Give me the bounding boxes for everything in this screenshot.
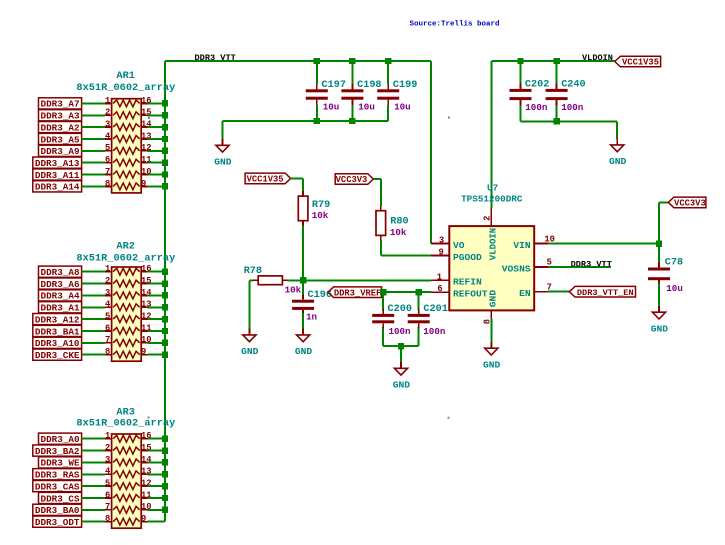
pin 8 stub (AR1) bbox=[105, 185, 112, 187]
pin 10 stub (VIN) bbox=[534, 243, 548, 245]
svg-text:AR2: AR2 bbox=[116, 240, 135, 252]
junction bus-AR2-13 bbox=[162, 304, 168, 310]
wire C201 top connection bbox=[418, 292, 420, 310]
svg-text:DDR3_A14: DDR3_A14 bbox=[35, 182, 80, 193]
resistor element AR2.4 bbox=[113, 304, 140, 311]
svg-text:DDR3_WE: DDR3_WE bbox=[41, 458, 80, 469]
pin stub 15 (AR1) bbox=[141, 114, 148, 116]
pin 2 stub (AR2) bbox=[105, 283, 112, 285]
svg-text:AR1: AR1 bbox=[116, 70, 135, 82]
wire AR3 pin 11 to bus bbox=[148, 497, 165, 499]
resistor element AR3.2 bbox=[113, 447, 140, 454]
wire C198 bottom connection bbox=[351, 105, 353, 121]
svg-text:9: 9 bbox=[141, 347, 146, 357]
resistor element AR1.7 bbox=[113, 171, 140, 178]
pin stub bottom C201 bbox=[418, 323, 420, 327]
pin 1 stub (AR2) bbox=[105, 271, 112, 273]
pin stub 11 (AR3) bbox=[141, 497, 148, 499]
junction bus-AR2-12 bbox=[162, 316, 168, 322]
pin stub 11 (AR2) bbox=[141, 330, 148, 332]
svg-text:VOSNS: VOSNS bbox=[502, 263, 531, 274]
ground for C197-C199 bbox=[214, 121, 232, 168]
wire R80 bottom connection bbox=[380, 240, 382, 255]
wire VIN to C78 node bbox=[548, 243, 659, 245]
wire DDR3_VTT drop to U7 pin 3 bbox=[430, 61, 432, 244]
ground for C78 bbox=[651, 284, 669, 335]
junction C240 bottom bbox=[553, 118, 559, 124]
wire AR1 pin 12 to bus bbox=[148, 150, 165, 152]
svg-text:10u: 10u bbox=[394, 102, 411, 113]
svg-text:C201: C201 bbox=[423, 304, 447, 315]
pin stub 12 (AR1) bbox=[141, 150, 148, 152]
label DDR3_A9 bbox=[39, 145, 82, 157]
wire DDR3_BA0 to AR3 pin 7 bbox=[82, 509, 106, 511]
wire DDR3_VTT horizontal (top) bbox=[165, 60, 431, 62]
resistor element AR1.8 bbox=[113, 183, 140, 190]
svg-text:C202: C202 bbox=[525, 80, 549, 91]
wire DDR3_CAS to AR3 pin 5 bbox=[82, 485, 106, 487]
label DDR3_CKE bbox=[33, 349, 82, 361]
svg-text:10u: 10u bbox=[323, 102, 340, 113]
pin 4 stub (AR3) bbox=[105, 473, 112, 475]
junction bus-AR1-11 bbox=[162, 159, 168, 165]
wire AR3 pin 14 to bus bbox=[148, 461, 165, 463]
svg-text:DDR3_A5: DDR3_A5 bbox=[41, 134, 80, 145]
label DDR3_A1 bbox=[39, 302, 82, 314]
junction bus-AR2-9 bbox=[162, 351, 168, 357]
ground for U7 bbox=[483, 319, 501, 371]
wire C196 top connection bbox=[302, 280, 304, 297]
wire DDR3_BA2 to AR3 pin 2 bbox=[82, 450, 106, 452]
junction bus-AR3-14 bbox=[162, 459, 168, 465]
wire DDR3_ODT to AR3 pin 8 bbox=[82, 521, 106, 523]
resistor array AR2 body bbox=[112, 267, 142, 361]
ground for C200/C201 bbox=[393, 346, 411, 390]
label DDR3_A13 bbox=[33, 157, 82, 169]
wire DDR3_A4 to AR2 pin 3 bbox=[82, 294, 106, 296]
svg-text:4: 4 bbox=[105, 300, 111, 310]
svg-text:100n: 100n bbox=[561, 102, 583, 113]
resistor R80 bbox=[376, 211, 386, 236]
resistor element AR2.5 bbox=[113, 316, 140, 323]
pin 6 stub (AR2) bbox=[105, 330, 112, 332]
wire C202 bottom connection bbox=[520, 105, 522, 121]
svg-text:DDR3_A1: DDR3_A1 bbox=[41, 303, 80, 314]
label DDR3_WE bbox=[39, 457, 82, 469]
pin stub 16 (AR2) bbox=[141, 271, 148, 273]
wire C78 top connection bbox=[658, 244, 660, 264]
label DDR3_A3 bbox=[39, 110, 82, 122]
svg-text:DDR3_CAS: DDR3_CAS bbox=[35, 481, 80, 492]
svg-text:10u: 10u bbox=[358, 102, 375, 113]
pin 4 stub (AR2) bbox=[105, 306, 112, 308]
svg-text:DDR3_A12: DDR3_A12 bbox=[35, 314, 80, 325]
pin stub bottom C202 bbox=[520, 100, 522, 105]
resistor R79 bbox=[298, 196, 308, 221]
junction C198 top bbox=[349, 58, 355, 64]
pin 1 stub (AR3) bbox=[105, 438, 112, 440]
label DDR3_A10 bbox=[33, 337, 82, 349]
pin stub 12 (AR3) bbox=[141, 485, 148, 487]
wire C197 top connection bbox=[316, 61, 318, 84]
pin stub 12 (AR2) bbox=[141, 318, 148, 320]
svg-text:8: 8 bbox=[105, 179, 110, 189]
pin 2 stub (AR1) bbox=[105, 114, 112, 116]
wire R79 top connection bbox=[302, 178, 304, 191]
artifact dot 2 bbox=[148, 117, 150, 119]
svg-text:REFIN: REFIN bbox=[453, 277, 482, 288]
svg-text:GND: GND bbox=[214, 157, 232, 168]
global label DDR3_VREF bbox=[328, 287, 382, 299]
svg-text:DDR3_RAS: DDR3_RAS bbox=[35, 470, 80, 481]
svg-text:1: 1 bbox=[105, 264, 110, 274]
resistor element AR2.7 bbox=[113, 339, 140, 346]
pin stub bottom C240 bbox=[556, 100, 558, 105]
svg-text:VCC1V35: VCC1V35 bbox=[622, 58, 659, 68]
pin stubs R78 bbox=[253, 279, 287, 281]
wire AR3 pin 10 to bus bbox=[148, 509, 165, 511]
pin 3 stub (AR2) bbox=[105, 294, 112, 296]
wire AR1 pin 15 to bus bbox=[148, 114, 165, 116]
wire U7 pin7 to DDR3_VTT_EN bbox=[548, 291, 569, 293]
svg-text:3: 3 bbox=[105, 120, 110, 130]
capacitor C202 bbox=[510, 84, 532, 106]
svg-text:100n: 100n bbox=[423, 326, 445, 337]
ic U7 TPS51200DRC body bbox=[449, 226, 534, 310]
svg-text:100n: 100n bbox=[525, 102, 547, 113]
pin 3 stub (VO) bbox=[431, 243, 449, 245]
svg-text:DDR3_A0: DDR3_A0 bbox=[41, 434, 80, 445]
pin 2 stub (AR3) bbox=[105, 450, 112, 452]
junction bus-AR1-12 bbox=[162, 148, 168, 154]
svg-text:GND: GND bbox=[393, 380, 411, 391]
wire R78 left down to GND bbox=[248, 280, 250, 335]
resistor element AR2.8 bbox=[113, 351, 140, 358]
pin stub bottom C196 bbox=[302, 310, 304, 313]
svg-text:1n: 1n bbox=[306, 312, 317, 323]
svg-text:VCC1V35: VCC1V35 bbox=[247, 175, 284, 185]
svg-text:GND: GND bbox=[295, 346, 313, 357]
junction C201 tap bbox=[416, 289, 422, 295]
wire DDR3_A5 to AR1 pin 4 bbox=[82, 138, 106, 140]
artifact dot 3 bbox=[148, 417, 150, 419]
svg-text:100n: 100n bbox=[389, 326, 411, 337]
svg-text:DDR3_BA1: DDR3_BA1 bbox=[35, 326, 80, 337]
svg-text:10k: 10k bbox=[285, 285, 302, 296]
wire C200 bottom connection bbox=[382, 327, 384, 346]
svg-text:8x51R_0602_array: 8x51R_0602_array bbox=[76, 82, 175, 94]
pin 1 stub (AR1) bbox=[105, 102, 112, 104]
pin stub 9 (AR1) bbox=[141, 185, 148, 187]
label DDR3_A2 bbox=[39, 122, 82, 134]
pin stub bottom C197 bbox=[316, 100, 318, 105]
wire DDR3_A13 to AR1 pin 6 bbox=[82, 162, 106, 164]
junction bus-AR1-13 bbox=[162, 136, 168, 142]
wire DDR3_A2 to AR1 pin 3 bbox=[82, 126, 106, 128]
wire AR2 pin 13 to bus bbox=[148, 306, 165, 308]
svg-text:DDR3_A11: DDR3_A11 bbox=[35, 170, 80, 181]
svg-text:DDR3_A4: DDR3_A4 bbox=[41, 291, 80, 302]
junction bus-AR2-10 bbox=[162, 340, 168, 346]
wire R79 bottom to REFIN node bbox=[302, 226, 304, 281]
junction bus-AR3-11 bbox=[162, 495, 168, 501]
svg-text:5: 5 bbox=[105, 479, 110, 489]
wire REFOUT row wire bbox=[382, 291, 432, 293]
pin stub top C197 bbox=[316, 84, 318, 89]
pin stub top C201 bbox=[418, 310, 420, 314]
resistor element AR3.1 bbox=[113, 435, 140, 442]
wire C197 bottom connection bbox=[316, 105, 318, 121]
ground for C202/C240 bbox=[609, 121, 627, 167]
wire corner to VCC3V3 bbox=[659, 201, 668, 203]
svg-text:4: 4 bbox=[105, 131, 111, 141]
resistor element AR1.6 bbox=[113, 159, 140, 166]
pin stub 10 (AR1) bbox=[141, 174, 148, 176]
pin stub 9 (AR3) bbox=[141, 521, 148, 523]
svg-text:3: 3 bbox=[105, 288, 110, 298]
global label VCC3V3 (right) bbox=[668, 197, 706, 209]
svg-text:9: 9 bbox=[141, 514, 146, 524]
global label VCC1V35 (mid) bbox=[245, 173, 291, 185]
wire VCC3V3 to R80 corner bbox=[373, 178, 380, 180]
junction bus-AR2-14 bbox=[162, 292, 168, 298]
pin stub 10 (AR3) bbox=[141, 509, 148, 511]
wire AR3 pin 13 to bus bbox=[148, 473, 165, 475]
svg-text:DDR3_A9: DDR3_A9 bbox=[41, 146, 80, 157]
pin 5 stub (AR2) bbox=[105, 318, 112, 320]
junction C200/C201 gnd node bbox=[398, 343, 404, 349]
svg-text:DDR3_A13: DDR3_A13 bbox=[35, 158, 80, 169]
resistor element AR3.8 bbox=[113, 518, 140, 525]
pin stub top C198 bbox=[351, 84, 353, 89]
junction C197 bottom bbox=[314, 118, 320, 124]
pin stub 15 (AR3) bbox=[141, 450, 148, 452]
wire AR2 pin 9 to bus bbox=[148, 354, 165, 356]
label DDR3_BA1 bbox=[33, 325, 82, 337]
junction bus-AR1-16 bbox=[162, 100, 168, 106]
pin stubs R80 bbox=[380, 206, 382, 241]
wire U7 pin5 to DDR3_VTT label bbox=[548, 266, 611, 268]
global label DDR3_VTT_EN bbox=[569, 286, 635, 298]
wire C240 bottom connection bbox=[556, 105, 558, 121]
pin 7 stub (AR2) bbox=[105, 342, 112, 344]
wire AR2 pin 10 to bus bbox=[148, 342, 165, 344]
wire AR3 pin 9 to bus bbox=[148, 521, 165, 523]
svg-text:VLDOIN: VLDOIN bbox=[489, 228, 499, 260]
wire DDR3_CKE to AR2 pin 8 bbox=[82, 354, 106, 356]
label DDR3_A0 bbox=[39, 433, 82, 445]
wire C198 top connection bbox=[351, 61, 353, 84]
wire DDR3_A14 to AR1 pin 8 bbox=[82, 185, 106, 187]
svg-text:C240: C240 bbox=[561, 80, 585, 91]
junction bus-AR2-16 bbox=[162, 269, 168, 275]
capacitor C200 bbox=[372, 309, 394, 329]
pin 8 stub (GND) bbox=[490, 310, 492, 318]
svg-text:DDR3_A7: DDR3_A7 bbox=[41, 99, 80, 110]
svg-text:DDR3_A2: DDR3_A2 bbox=[41, 122, 80, 133]
svg-text:Source:Trellis board: Source:Trellis board bbox=[410, 21, 500, 29]
wire AR2 pin 15 to bus bbox=[148, 283, 165, 285]
wire AR1 pin 14 to bus bbox=[148, 126, 165, 128]
ground for R78 bbox=[241, 280, 259, 357]
artifact dot 1 bbox=[448, 117, 450, 119]
junction bus-AR3-10 bbox=[162, 507, 168, 513]
resistor element AR2.1 bbox=[113, 268, 140, 275]
svg-text:5: 5 bbox=[105, 312, 110, 322]
junction bus-AR3-15 bbox=[162, 447, 168, 453]
svg-text:9: 9 bbox=[439, 248, 444, 258]
svg-text:7: 7 bbox=[105, 502, 110, 512]
svg-text:8: 8 bbox=[105, 347, 110, 357]
label DDR3_CAS bbox=[33, 481, 82, 493]
pin stub 14 (AR1) bbox=[141, 126, 148, 128]
pin stub top C78 bbox=[658, 263, 660, 267]
wire DDR3_CS to AR3 pin 6 bbox=[82, 497, 106, 499]
svg-text:6: 6 bbox=[437, 284, 442, 294]
pin 7 stub (AR1) bbox=[105, 174, 112, 176]
label DDR3_CS bbox=[39, 492, 82, 504]
wire C78 bottom to GND bbox=[658, 284, 660, 312]
pin 6 stub (AR3) bbox=[105, 497, 112, 499]
svg-text:DDR3_VREF: DDR3_VREF bbox=[334, 288, 382, 298]
svg-text:R78: R78 bbox=[244, 266, 262, 277]
junction bus-AR3-13 bbox=[162, 471, 168, 477]
wire R78 right to REFIN node bbox=[287, 279, 303, 281]
label DDR3_A11 bbox=[33, 169, 82, 181]
wire R80 to U7 pin 9 bbox=[381, 255, 431, 257]
wire C240 top connection bbox=[556, 61, 558, 84]
label DDR3_A4 bbox=[39, 290, 82, 302]
junction C199 top bbox=[385, 58, 391, 64]
global label VCC3V3 (mid) bbox=[335, 174, 373, 186]
junction C202 top bbox=[517, 58, 523, 64]
pin stub 15 (AR2) bbox=[141, 283, 148, 285]
junction C240 top bbox=[553, 58, 559, 64]
wire AR1 pin 13 to bus bbox=[148, 138, 165, 140]
svg-text:DDR3_A8: DDR3_A8 bbox=[41, 267, 80, 278]
svg-text:VCC3V3: VCC3V3 bbox=[674, 199, 706, 209]
pin 5 stub (VOSNS) bbox=[534, 266, 548, 268]
pin 6 stub (REFOUT) bbox=[431, 291, 449, 293]
wire C200 top connection bbox=[382, 292, 384, 310]
pin 8 stub (AR2) bbox=[105, 354, 112, 356]
svg-text:DDR3_A3: DDR3_A3 bbox=[41, 111, 80, 122]
resistor element AR3.4 bbox=[113, 471, 140, 478]
pin stub 14 (AR2) bbox=[141, 294, 148, 296]
label DDR3_A6 bbox=[39, 278, 82, 290]
capacitor C78 bbox=[648, 262, 670, 285]
wire C202 top connection bbox=[520, 61, 522, 84]
wire C201 bottom connection bbox=[418, 327, 420, 346]
wire C196 bottom to GND bbox=[302, 313, 304, 335]
pin 7 stub (AR3) bbox=[105, 509, 112, 511]
svg-text:9: 9 bbox=[141, 179, 146, 189]
wire AR1 pin 10 to bus bbox=[148, 174, 165, 176]
svg-text:VCC3V3: VCC3V3 bbox=[336, 175, 368, 185]
junction C200 tap bbox=[380, 289, 386, 295]
svg-text:VIN: VIN bbox=[513, 240, 531, 251]
svg-text:DDR3_BA2: DDR3_BA2 bbox=[35, 446, 80, 457]
label DDR3_A8 bbox=[39, 266, 82, 278]
svg-text:6: 6 bbox=[105, 490, 110, 500]
svg-text:DDR3_CS: DDR3_CS bbox=[41, 493, 80, 504]
junction bus-AR3-16 bbox=[162, 436, 168, 442]
wire AR2 pin 14 to bus bbox=[148, 294, 165, 296]
svg-text:3: 3 bbox=[105, 455, 110, 465]
wire DDR3_RAS to AR3 pin 4 bbox=[82, 473, 106, 475]
wire AR1 pin 9 to bus bbox=[148, 185, 165, 187]
pin stub 13 (AR3) bbox=[141, 473, 148, 475]
resistor element AR1.3 bbox=[113, 124, 140, 131]
wire VCC1V35 to R79 corner bbox=[291, 177, 303, 179]
pin stub 9 (AR2) bbox=[141, 354, 148, 356]
svg-text:VO: VO bbox=[453, 240, 465, 251]
resistor array AR3 body bbox=[112, 434, 142, 528]
svg-text:VLDOIN: VLDOIN bbox=[582, 53, 613, 63]
junction VIN/C78 node bbox=[656, 240, 662, 246]
wire DDR3_A3 to AR1 pin 2 bbox=[82, 114, 106, 116]
svg-text:GND: GND bbox=[483, 360, 501, 371]
pin 3 stub (AR3) bbox=[105, 461, 112, 463]
svg-text:DDR3_BA0: DDR3_BA0 bbox=[35, 505, 80, 516]
pin 5 stub (AR1) bbox=[105, 150, 112, 152]
wire DDR3_A11 to AR1 pin 7 bbox=[82, 174, 106, 176]
pin 9 stub (PGOOD) bbox=[431, 255, 449, 257]
junction bus-AR2-15 bbox=[162, 280, 168, 286]
capacitor C201 bbox=[408, 309, 430, 329]
pin stub 11 (AR1) bbox=[141, 162, 148, 164]
wire AR2 pin 12 to bus bbox=[148, 318, 165, 320]
resistor element AR1.1 bbox=[113, 100, 140, 107]
junction bus-AR2-11 bbox=[162, 328, 168, 334]
wire AR1 pin 11 to bus bbox=[148, 162, 165, 164]
svg-text:7: 7 bbox=[105, 167, 110, 177]
wire AR3 pin 15 to bus bbox=[148, 450, 165, 452]
junction bus-AR1-9 bbox=[162, 183, 168, 189]
resistor element AR3.5 bbox=[113, 483, 140, 490]
pin stub bottom C78 bbox=[658, 280, 660, 284]
svg-text:DDR3_CKE: DDR3_CKE bbox=[35, 350, 80, 361]
artifact dot 4 bbox=[448, 417, 450, 419]
svg-text:REFOUT: REFOUT bbox=[453, 289, 488, 300]
wire AR3 pin 12 to bus bbox=[148, 485, 165, 487]
wire DDR3_WE to AR3 pin 3 bbox=[82, 461, 106, 463]
pin stub top C202 bbox=[520, 84, 522, 89]
wire R80 top connection bbox=[380, 179, 382, 206]
wire C199 bottom connection bbox=[387, 105, 389, 121]
pin stub bottom C199 bbox=[387, 100, 389, 105]
wire DDR3_A6 to AR2 pin 2 bbox=[82, 283, 106, 285]
svg-text:6: 6 bbox=[105, 155, 110, 165]
capacitor C198 bbox=[341, 84, 363, 105]
wire C78 node up bbox=[658, 202, 660, 243]
wire C200/C201 bottom bus bbox=[383, 345, 419, 347]
resistor array AR1 body bbox=[112, 99, 142, 193]
svg-text:5: 5 bbox=[547, 257, 552, 267]
svg-text:C78: C78 bbox=[665, 257, 683, 268]
wire AR2 pin 11 to bus bbox=[148, 330, 165, 332]
svg-text:DDR3_VTT_EN: DDR3_VTT_EN bbox=[577, 288, 634, 298]
wire C202/C240 bottom bus bbox=[521, 120, 618, 122]
svg-text:3: 3 bbox=[439, 236, 444, 246]
resistor element AR2.2 bbox=[113, 280, 140, 287]
pin stub 13 (AR2) bbox=[141, 306, 148, 308]
resistor element AR3.3 bbox=[113, 459, 140, 466]
junction bus-AR1-14 bbox=[162, 124, 168, 130]
global label VCC1V35 (top right) bbox=[615, 56, 661, 67]
wire R78 left corner bbox=[249, 279, 253, 281]
label DDR3_RAS bbox=[33, 469, 82, 481]
